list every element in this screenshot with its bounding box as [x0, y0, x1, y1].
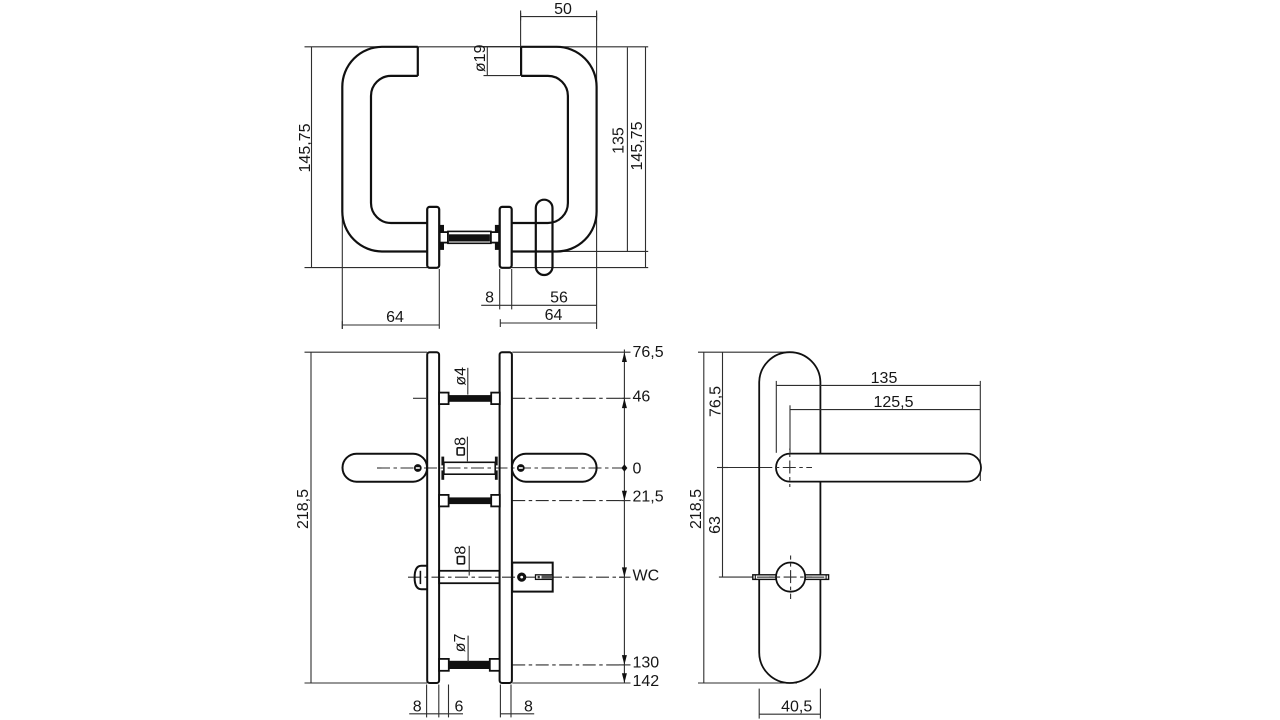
left rosette	[427, 207, 439, 268]
bolt row 130 heads	[439, 659, 449, 671]
svg-text:130: 130	[633, 655, 660, 672]
bottom dimension 8 right	[500, 713, 534, 715]
dimension 145,75 left	[311, 47, 313, 268]
svg-text:63: 63	[707, 516, 724, 534]
svg-text:8: 8	[485, 290, 494, 307]
extension bottom y=683	[698, 682, 797, 684]
WC cassette screw	[517, 573, 526, 582]
bolt row 46 heads	[439, 393, 449, 405]
extension top y=352.2	[698, 351, 786, 353]
WC spindle	[439, 571, 500, 583]
BOTTOM LEFT DRAWING	[295, 344, 664, 717]
dimension 135 right	[626, 48, 628, 252]
svg-text:ø7: ø7	[452, 633, 469, 652]
bottom dimension 8 6	[409, 713, 463, 715]
svg-text:40,5: 40,5	[781, 699, 812, 716]
svg-text:135: 135	[611, 127, 628, 154]
extension row 0	[719, 467, 770, 469]
centerline row WC	[408, 576, 624, 578]
centerline row 21,5	[512, 500, 624, 502]
arrows	[622, 352, 627, 362]
WC cassette	[512, 563, 553, 592]
svg-text:ø4: ø4	[452, 367, 469, 386]
svg-text:50: 50	[554, 1, 572, 18]
extension row WC	[719, 576, 753, 578]
right grip screw	[517, 464, 525, 472]
TOP DRAWING	[297, 1, 648, 329]
svg-text:142: 142	[633, 673, 660, 690]
spindle nibs	[440, 225, 444, 232]
extension line 50 left x=520.6	[520, 11, 522, 47]
bolt row 21,5 shaft	[449, 497, 492, 504]
spindle black bar	[449, 234, 490, 241]
right rosette	[500, 207, 512, 268]
dimension 145,75 right	[645, 47, 647, 268]
plate front	[759, 352, 820, 683]
label square8 row 0	[457, 448, 464, 455]
extension bottom y=683	[305, 682, 428, 684]
svg-text:21,5: 21,5	[633, 489, 664, 506]
svg-text:8: 8	[413, 699, 422, 716]
bolt row 21,5 heads	[439, 495, 449, 507]
dimension 218,5	[703, 352, 705, 683]
right grip	[512, 454, 597, 482]
handle grip front	[776, 454, 981, 482]
svg-text:145,75: 145,75	[629, 121, 646, 170]
left grip screw	[414, 464, 422, 472]
svg-text:46: 46	[633, 389, 651, 406]
right handle outline	[512, 47, 597, 252]
svg-text:135: 135	[871, 370, 898, 387]
bolt row 46 shaft	[449, 395, 492, 402]
spindle nibs row 0	[441, 457, 444, 466]
left handle outline	[342, 47, 427, 252]
dimension 125,5	[790, 409, 980, 411]
svg-text:218,5: 218,5	[688, 489, 705, 529]
thumbturn circle	[776, 563, 805, 592]
svg-text:WC: WC	[633, 568, 660, 585]
spindle washers	[440, 232, 448, 243]
extension line right bar bottom y=251.4	[557, 250, 648, 252]
centerline row 0	[377, 467, 624, 469]
centerline row 130	[512, 664, 624, 666]
dimension 218,5	[310, 352, 312, 683]
svg-text:8: 8	[453, 546, 470, 555]
grip end oval	[536, 200, 553, 275]
dimension 76,5 / 63	[722, 352, 724, 577]
zero marker	[621, 464, 627, 471]
thumbturn crosshair	[790, 556, 792, 600]
dimension 50	[521, 16, 597, 18]
spindle row 0	[444, 462, 495, 474]
dimension 64 right	[500, 322, 596, 324]
svg-text:8: 8	[524, 699, 533, 716]
extension line right outer x=596.6	[596, 11, 598, 330]
svg-text:64: 64	[386, 309, 404, 326]
spindle outline	[448, 231, 491, 243]
dimension 40,5	[758, 689, 760, 719]
extension top y=352.2	[305, 351, 428, 353]
right plate	[500, 352, 512, 683]
dimension 8 / 56	[481, 304, 596, 306]
left grip	[343, 454, 428, 482]
left plate	[427, 352, 439, 683]
BOTTOM RIGHT DRAWING	[688, 352, 981, 718]
bottom extension lines	[426, 685, 428, 718]
svg-text:0: 0	[633, 461, 642, 478]
extension line top shared y=46.8	[305, 46, 649, 48]
ordinate dimension column	[623, 350, 625, 684]
svg-text:76,5: 76,5	[708, 386, 725, 417]
thumbturn wing right	[804, 575, 829, 580]
extension line bottom right y=267.6	[512, 267, 649, 269]
svg-text:145,75: 145,75	[297, 123, 314, 172]
svg-text:64: 64	[545, 307, 563, 324]
svg-text:6: 6	[454, 699, 463, 716]
centerline row 46	[413, 397, 427, 399]
svg-text:125,5: 125,5	[873, 394, 913, 411]
dimension 135	[776, 384, 980, 386]
extension line bottom left handle y=267.6	[305, 267, 428, 269]
svg-text:218,5: 218,5	[295, 489, 312, 529]
svg-text:ø19: ø19	[472, 44, 489, 72]
dimension o19	[484, 46, 521, 48]
WC slot	[536, 575, 553, 580]
label square8 row WC	[457, 557, 464, 564]
grip crosshair	[789, 449, 791, 488]
dimension 64 left	[342, 324, 439, 326]
extension line left outer x=342.3	[341, 212, 343, 330]
WC thumbturn screw head left	[415, 566, 428, 590]
thumbturn wing left	[753, 575, 778, 580]
bolt row 130 shaft	[449, 661, 490, 669]
svg-text:76,5: 76,5	[633, 344, 664, 361]
svg-text:56: 56	[550, 290, 568, 307]
